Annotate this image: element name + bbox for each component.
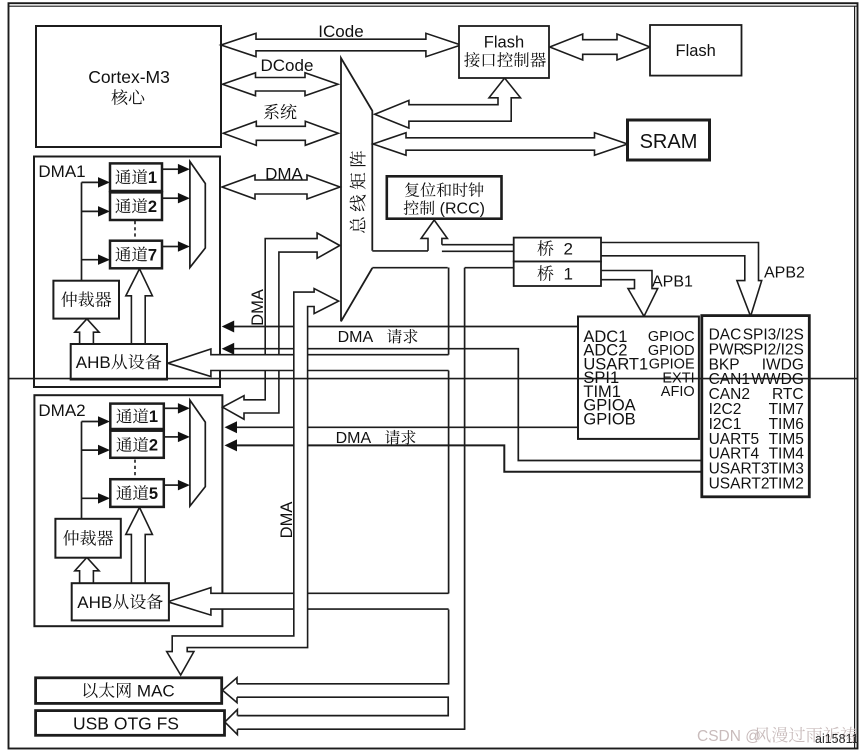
svg-text:7: 7 xyxy=(148,246,157,264)
svg-text:1: 1 xyxy=(149,408,158,426)
svg-text:DMA: DMA xyxy=(278,502,296,539)
svg-text:APB1: APB1 xyxy=(652,274,693,291)
svg-text:DMA: DMA xyxy=(265,165,303,184)
svg-text:DMA: DMA xyxy=(336,430,384,447)
svg-text:1: 1 xyxy=(148,169,157,187)
svg-text:2: 2 xyxy=(554,240,573,259)
svg-text:APB2: APB2 xyxy=(764,265,805,282)
svg-text:ai15811: ai15811 xyxy=(815,732,859,746)
svg-text:(RCC): (RCC) xyxy=(435,201,485,218)
svg-text:Flash: Flash xyxy=(676,42,716,60)
svg-text:2: 2 xyxy=(148,198,157,216)
svg-text:AHB: AHB xyxy=(76,353,111,372)
svg-text:Flash: Flash xyxy=(484,33,524,51)
svg-text:2: 2 xyxy=(149,437,158,455)
svg-text:5: 5 xyxy=(149,485,158,503)
svg-text:AFIO: AFIO xyxy=(661,384,695,400)
svg-text:USB OTG FS: USB OTG FS xyxy=(73,714,179,734)
svg-text:DMA: DMA xyxy=(338,329,386,346)
svg-text:AHB: AHB xyxy=(77,593,112,612)
svg-text:1: 1 xyxy=(554,265,573,284)
svg-text:TIM2: TIM2 xyxy=(769,476,804,493)
svg-text:SRAM: SRAM xyxy=(640,131,698,153)
svg-text:CSDN @: CSDN @ xyxy=(697,728,761,745)
svg-text:Cortex-M3: Cortex-M3 xyxy=(88,67,170,87)
svg-text:MAC: MAC xyxy=(132,682,175,701)
svg-text:USART2: USART2 xyxy=(709,476,770,493)
svg-text:DMA2: DMA2 xyxy=(38,401,85,420)
svg-text:DCode: DCode xyxy=(261,56,314,75)
svg-text:DMA1: DMA1 xyxy=(38,162,85,181)
svg-text:DMA: DMA xyxy=(249,289,267,326)
svg-text:GPIOB: GPIOB xyxy=(583,410,635,428)
svg-text:ICode: ICode xyxy=(318,22,363,41)
